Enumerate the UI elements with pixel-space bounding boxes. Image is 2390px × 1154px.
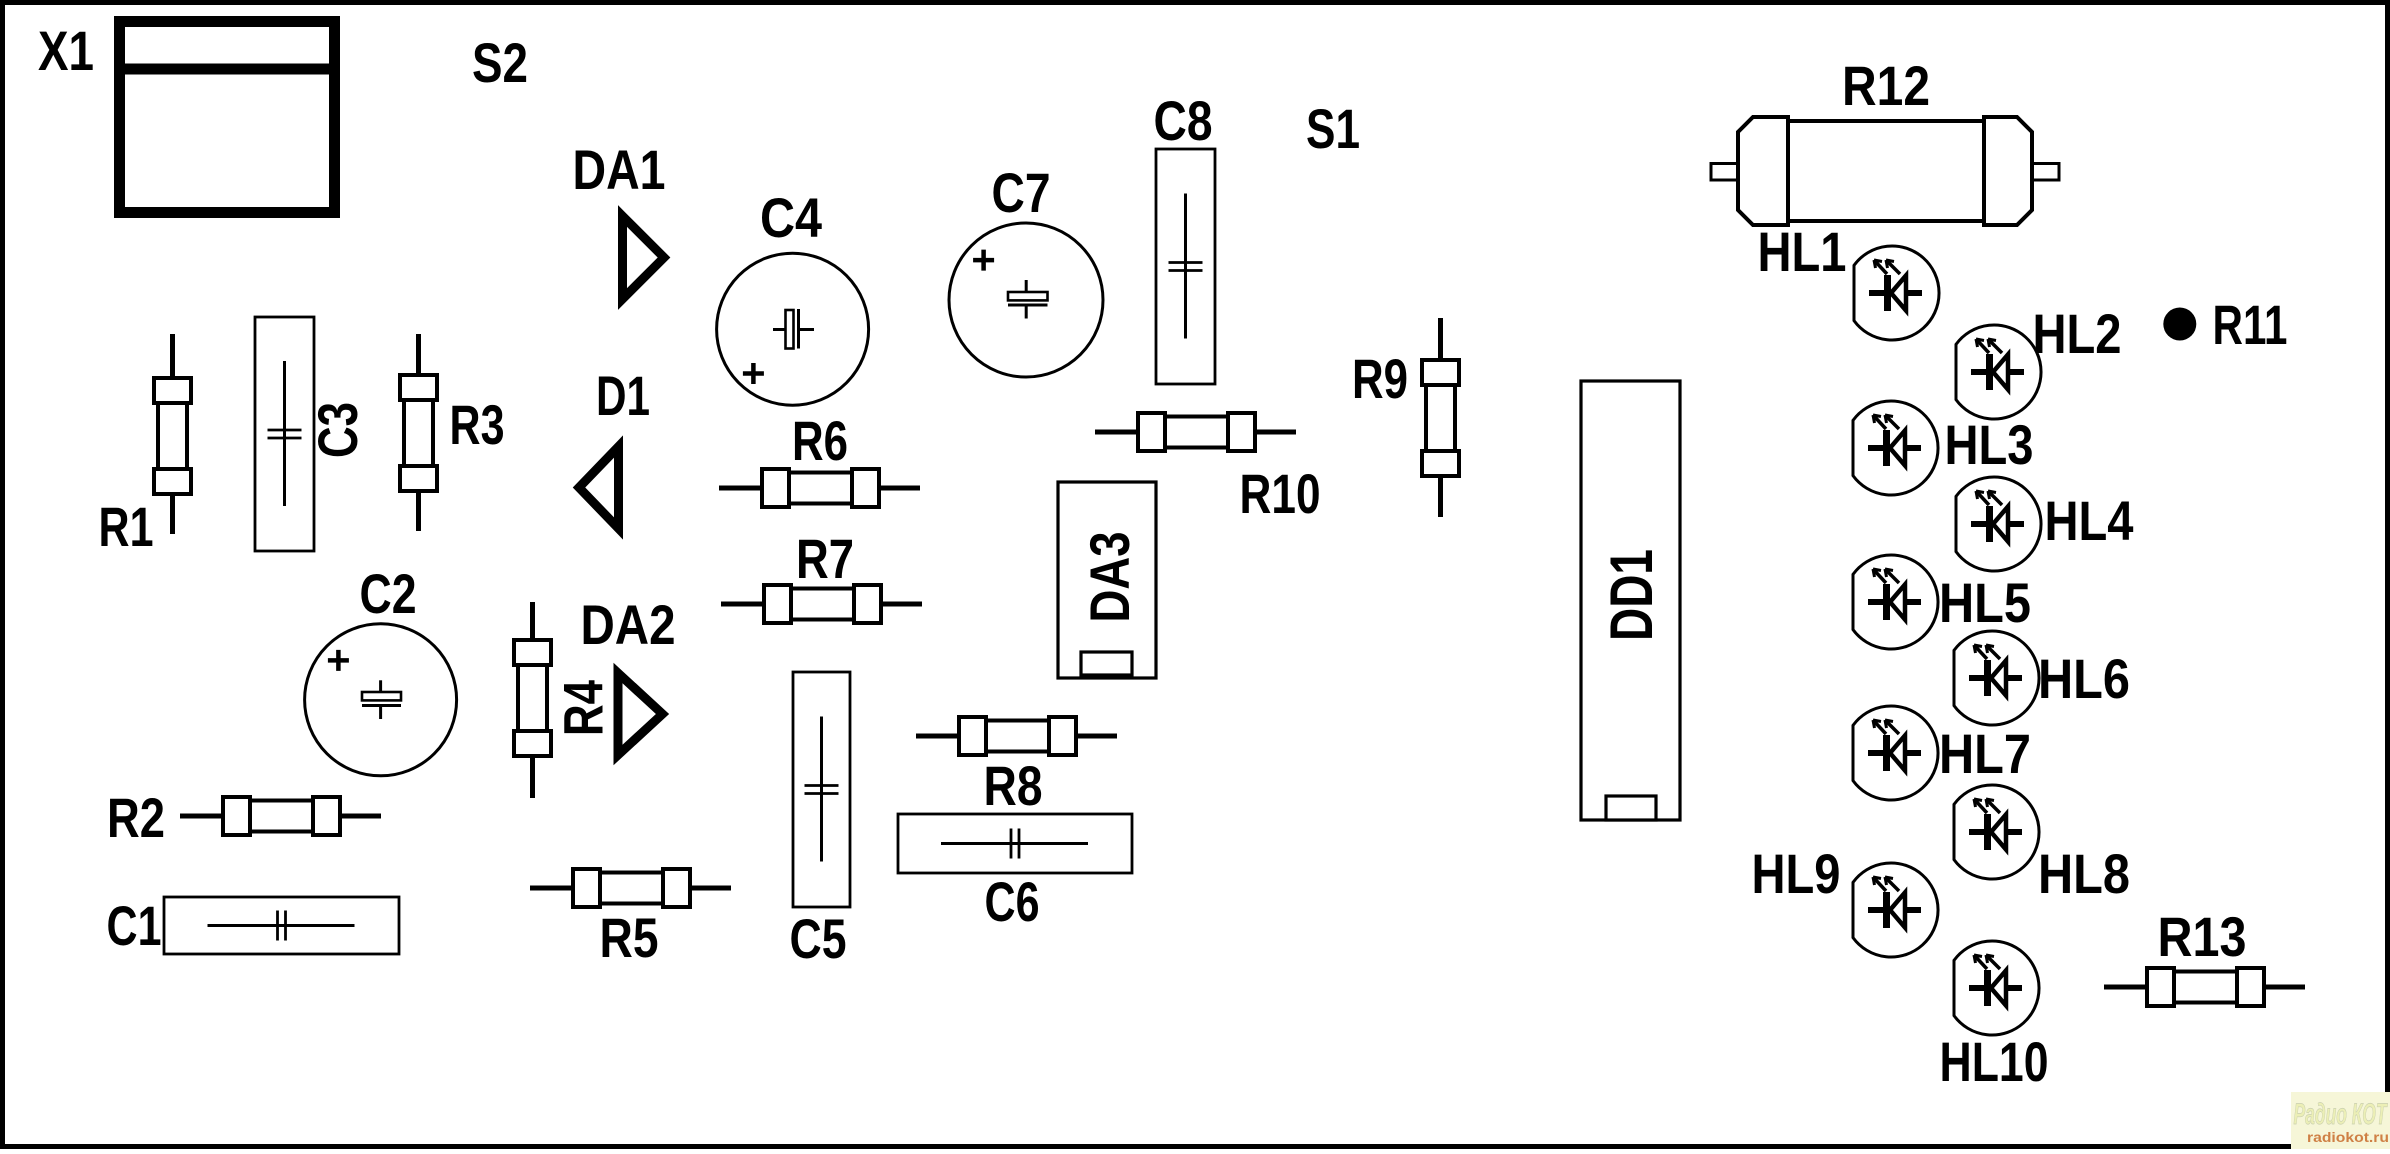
svg-text:R11: R11 <box>2213 293 2288 356</box>
svg-text:HL9: HL9 <box>1752 842 1841 905</box>
svg-text:R10: R10 <box>1240 462 1321 525</box>
svg-text:DD1: DD1 <box>1598 549 1665 641</box>
resistor R1 <box>154 334 191 534</box>
svg-text:HL4: HL4 <box>2045 489 2134 552</box>
LED HL2 <box>1956 325 2041 419</box>
svg-text:S1: S1 <box>1306 97 1360 160</box>
svg-text:S2: S2 <box>472 31 528 94</box>
capacitor C6 <box>898 814 1132 873</box>
diode D1 <box>579 447 619 529</box>
svg-text:R5: R5 <box>600 906 659 969</box>
svg-text:C6: C6 <box>985 870 1040 933</box>
svg-text:R6: R6 <box>792 409 848 472</box>
LED HL6 <box>1954 631 2039 725</box>
resistor R11 <box>2163 308 2196 341</box>
svg-text:R4: R4 <box>552 680 615 736</box>
resistor R7 <box>721 585 922 623</box>
svg-text:D1: D1 <box>596 364 650 427</box>
resistor R9 <box>1422 318 1459 517</box>
svg-text:HL6: HL6 <box>2038 647 2130 710</box>
svg-text:C8: C8 <box>1154 89 1213 152</box>
capacitor C8 <box>1156 149 1215 384</box>
svg-text:R12: R12 <box>1842 54 1930 117</box>
svg-text:R7: R7 <box>796 527 854 590</box>
LED HL9 <box>1853 863 1938 957</box>
capacitor C2 <box>305 624 457 776</box>
svg-text:HL2: HL2 <box>2033 302 2122 365</box>
op-amp DA3 <box>1058 482 1156 678</box>
LED HL3 <box>1853 401 1938 495</box>
resistor R2 <box>180 797 381 835</box>
svg-text:C3: C3 <box>306 402 369 458</box>
svg-text:C1: C1 <box>107 894 162 957</box>
svg-text:DA1: DA1 <box>573 138 666 201</box>
resistor R10 <box>1095 413 1296 451</box>
svg-text:X1: X1 <box>38 19 94 82</box>
svg-text:DA3: DA3 <box>1078 532 1141 623</box>
svg-text:R13: R13 <box>2158 905 2247 968</box>
LED HL10 <box>1954 941 2039 1035</box>
svg-text:R2: R2 <box>107 786 165 849</box>
svg-text:HL8: HL8 <box>2038 842 2130 905</box>
capacitor C1 <box>164 897 399 954</box>
svg-text:HL7: HL7 <box>1939 722 2031 785</box>
LED HL5 <box>1853 555 1938 649</box>
svg-text:HL10: HL10 <box>1940 1030 2049 1093</box>
resistor R12 <box>1711 117 2059 225</box>
resistor R13 <box>2104 968 2305 1006</box>
svg-text:HL3: HL3 <box>1945 413 2034 476</box>
LED HL1 <box>1854 246 1939 340</box>
capacitor C5 <box>793 672 850 907</box>
capacitor C7 <box>949 223 1103 377</box>
svg-text:C4: C4 <box>760 186 822 249</box>
capacitor C3 <box>255 317 314 551</box>
resistor R6 <box>719 469 920 507</box>
resistor R3 <box>400 334 437 531</box>
svg-text:R1: R1 <box>99 495 154 558</box>
svg-text:HL5: HL5 <box>1939 571 2031 634</box>
capacitor C4 <box>717 253 869 405</box>
LED HL8 <box>1954 785 2039 879</box>
svg-text:DA2: DA2 <box>581 593 676 656</box>
LED HL7 <box>1853 706 1938 800</box>
svg-text:R9: R9 <box>1352 347 1408 410</box>
IC DD1 <box>1581 381 1680 820</box>
svg-text:HL1: HL1 <box>1758 220 1847 283</box>
resistor R5 <box>530 869 731 907</box>
svg-text:C5: C5 <box>790 907 847 970</box>
svg-text:R3: R3 <box>450 393 505 456</box>
watermark radiokot <box>2291 1092 2390 1149</box>
resistor R8 <box>916 717 1117 755</box>
svg-text:R8: R8 <box>984 754 1043 817</box>
LED HL4 <box>1956 477 2041 571</box>
connector X1 <box>114 22 340 213</box>
svg-text:C2: C2 <box>360 562 417 625</box>
IC DA2 <box>618 673 663 755</box>
svg-text:Радио КОТ: Радио КОТ <box>2294 1098 2389 1131</box>
svg-text:C7: C7 <box>992 161 1051 224</box>
resistor R4 <box>514 602 551 798</box>
svg-text:radiokot.ru: radiokot.ru <box>2307 1129 2389 1145</box>
IC DA1 <box>623 216 665 299</box>
